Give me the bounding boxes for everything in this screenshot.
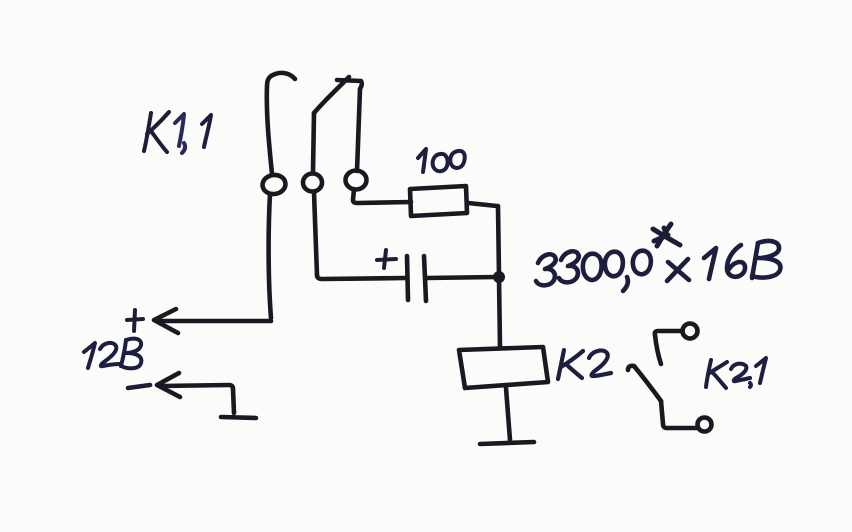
wire: coil bottom lead [506,388,510,440]
wire: resistor to right vertical [468,203,497,206]
contact circle 1 [261,173,286,195]
wire: contact 2 movable arm diagonal [314,77,349,113]
label K2 [558,350,611,379]
K2.1 bottom contact circle [698,418,712,432]
wire: right vertical down to junction [498,206,499,276]
label K2.1 [706,358,766,388]
plus sign (supply) [127,310,143,331]
wire: +12V horizontal [158,319,271,324]
wire: K2.1 movable arm [628,366,661,401]
junction node [493,271,505,283]
label 100 [418,149,465,172]
minus sign (supply) [128,385,150,388]
asterisk footnote mark [653,224,680,246]
wire: contact 2 lower lead down [314,192,317,275]
label 3300,0 [536,251,651,291]
label 16 B [704,241,780,279]
contact circle 3 [346,171,367,190]
wire: top tick over diagonal [337,80,362,89]
wire: contact 3 lower lead to resistor [353,189,411,203]
ground bar [480,442,534,444]
wire: contact 3 upper lead [357,89,360,171]
label 12 B [84,339,141,369]
relay coil K2 [459,347,548,388]
wire: -12V horizontal with down stub [161,385,234,413]
wire: contact 1 upper lead with hook [267,73,295,174]
wire: capacitor right plate to junction [427,277,497,278]
arrowhead + [154,309,178,333]
contact circle 2 [303,174,322,192]
resistor R1 100 [410,186,467,216]
capacitor C1 plus sign [377,250,396,268]
capacitor C1 plates [407,256,426,301]
wire: contact 1 lower lead down to +12V rail [269,194,271,318]
arrowhead - [157,373,180,397]
wire: K2.1 bottom lead [661,401,697,428]
wire: K2.1 top lead [655,331,682,364]
wire: to capacitor left plate [317,275,406,279]
terminal tick at minus stub [221,417,256,418]
K2.1 top contact circle [683,324,698,339]
wire: contact 2 short vertical [313,113,314,172]
label x [667,259,689,281]
label K1.1 [144,112,211,153]
wire: junction down to relay coil [499,278,500,347]
